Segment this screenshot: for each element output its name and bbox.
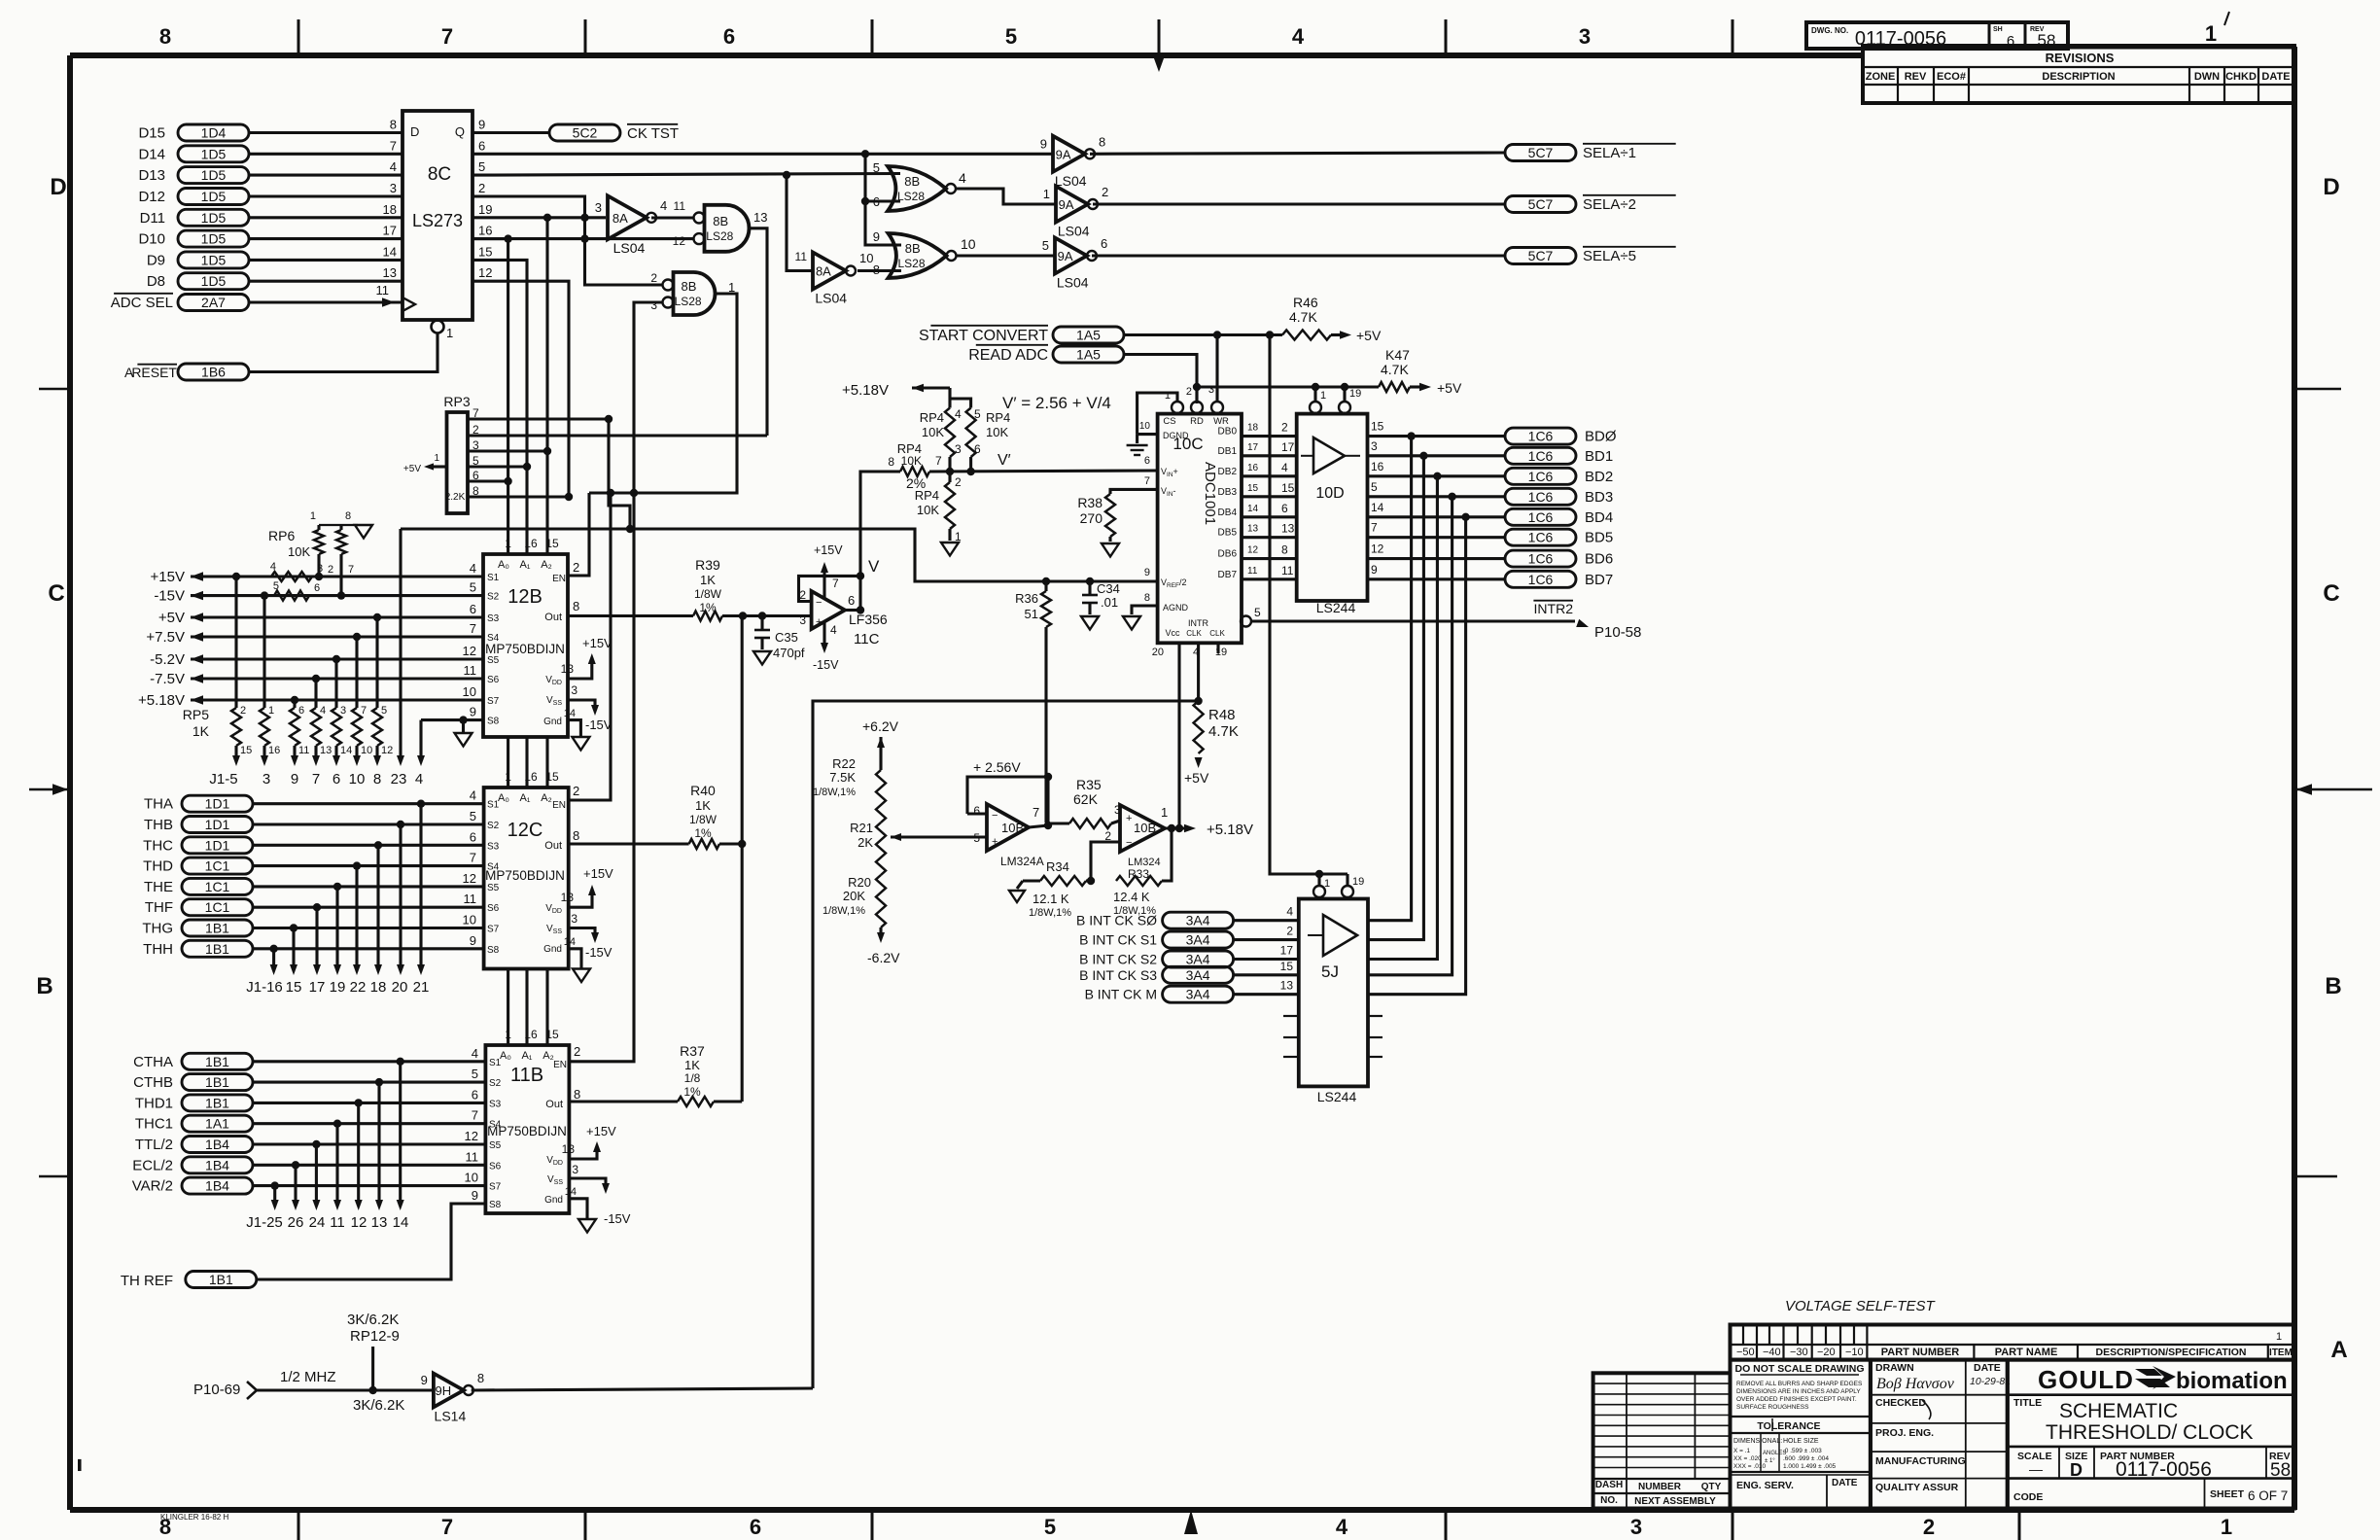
svg-text:5: 5 [472,1067,478,1081]
svg-text:+: + [992,836,997,848]
svg-text:2: 2 [573,560,579,575]
12C VDD +15V [569,891,592,907]
10D output to tag BD6 [1368,557,1506,560]
svg-text:8A: 8A [612,211,628,226]
wire 11B out to R37 [569,1100,678,1102]
svg-text:4.7K: 4.7K [1381,362,1409,377]
svg-text:LS04: LS04 [1055,173,1087,189]
J1-23 wire [399,529,402,757]
svg-text:SURFACE ROUGHNESS: SURFACE ROUGHNESS [1736,1404,1809,1411]
svg-text:1: 1 [1043,187,1050,201]
svg-text:-15V: -15V [813,658,839,672]
svg-text:9: 9 [421,1373,428,1387]
svg-text:S2: S2 [487,592,500,603]
svg-text:7: 7 [472,1108,478,1123]
wire THC1 to 11B [253,1122,485,1125]
svg-text:11: 11 [1247,566,1258,577]
svg-text:3A4: 3A4 [1186,967,1210,983]
wire NOR(13) out down [748,228,768,436]
svg-text:+7.5V: +7.5V [146,629,185,646]
svg-text:BD6: BD6 [1585,551,1613,568]
svg-text:1B1: 1B1 [205,941,229,957]
svg-text:11: 11 [330,1214,345,1231]
svg-text:1C6: 1C6 [1528,509,1554,525]
svg-text:4: 4 [320,705,326,717]
svg-text:5J: 5J [1321,962,1339,981]
svg-text:3: 3 [650,298,657,312]
svg-text:R39: R39 [695,557,720,573]
svg-text:4: 4 [955,407,962,421]
analog mux 12C MP750BDIJN [484,787,569,969]
svg-text:16: 16 [268,745,280,756]
buffer 5J LS244 [1299,899,1368,1087]
svg-text:DB6: DB6 [1218,549,1238,560]
title company block [2008,1360,2294,1509]
wire 5J output to BD1 line [1419,452,1427,460]
svg-text:RP4: RP4 [920,410,944,425]
svg-text:15: 15 [1371,420,1384,434]
svg-text:CODE: CODE [2013,1491,2043,1503]
svg-text:2: 2 [573,784,579,798]
svg-text:13: 13 [371,1214,388,1231]
resistor RP5 section pin 2 to J1-15 [232,573,240,580]
svg-text:11: 11 [376,283,390,297]
svg-text:3: 3 [799,613,806,627]
svg-text:LS273: LS273 [412,211,463,230]
svg-text:C: C [2323,580,2339,607]
svg-text:1B4: 1B4 [205,1178,229,1194]
svg-text:11B: 11B [510,1065,543,1086]
ADC INTR pin bubble [1241,616,1251,627]
svg-text:1B1: 1B1 [209,1272,233,1287]
ADC RD vertical [1195,387,1198,402]
wire 8C pin12 down [472,281,569,497]
svg-text:S1: S1 [489,1058,502,1068]
svg-text:11: 11 [674,199,686,213]
wire THG to 12C [253,927,484,929]
svg-text:8: 8 [159,24,171,49]
svg-text:S6: S6 [489,1161,502,1172]
svg-text:+5V: +5V [1184,770,1209,786]
svg-text:V′ = 2.56 + V/4: V′ = 2.56 + V/4 [1002,394,1111,412]
svg-text:1B4: 1B4 [205,1157,229,1172]
svg-text:MANUFACTURING: MANUFACTURING [1875,1455,1966,1467]
svg-text:1/2 MHZ: 1/2 MHZ [280,1369,336,1385]
svg-text:S8: S8 [487,945,500,956]
vertical from pin5 line to inverter 8A-4 [787,175,813,271]
svg-text:D9: D9 [147,252,165,268]
svg-text:26: 26 [288,1214,304,1231]
svg-text:12: 12 [673,234,686,248]
wire D15 to 8C pin 8 [249,131,402,134]
wire START CONVERT down to 5J enables [1270,335,1347,875]
svg-text:DB4: DB4 [1218,507,1238,518]
svg-text:DIMENSIONAL:: DIMENSIONAL: [1733,1438,1782,1445]
svg-text:6: 6 [472,469,479,482]
svg-text:DIMENSIONS ARE IN INCHES AND A: DIMENSIONS ARE IN INCHES AND APPLY [1736,1388,1861,1395]
ADC WR vertical [1215,335,1218,402]
5J buffer triangle [1323,915,1357,956]
wire P10-69 to LS14 [257,1388,434,1391]
svg-text:R20: R20 [848,875,871,890]
svg-text:D13: D13 [138,167,165,184]
svg-text:15: 15 [545,537,559,550]
svg-text:−: − [816,597,822,609]
svg-text:2: 2 [1186,386,1192,398]
svg-text:EN: EN [552,800,566,811]
svg-text:8: 8 [373,771,381,787]
svg-text:S5: S5 [487,655,500,666]
svg-text:1A5: 1A5 [1076,347,1101,363]
10D output to tag BD3 [1368,495,1506,498]
svg-text:5: 5 [1005,24,1017,49]
svg-text:B: B [2325,973,2341,999]
svg-text:R40: R40 [690,783,716,798]
svg-text:−: − [992,810,997,822]
svg-text:1D1: 1D1 [205,837,230,853]
drawing number box [1806,22,2068,49]
svg-text:9: 9 [1040,136,1047,151]
svg-text:8B: 8B [905,241,921,256]
svg-text:10B: 10B [1001,821,1024,835]
svg-text:A₁: A₁ [519,792,530,804]
svg-text:−40: −40 [1763,1347,1781,1358]
resistor R22 7.5K [876,770,886,822]
svg-text:1: 1 [310,510,316,522]
svg-text:3: 3 [472,438,479,452]
svg-text:Gnd: Gnd [543,717,562,727]
svg-text:1/8W: 1/8W [689,813,717,826]
svg-text:8B: 8B [713,214,728,228]
svg-text:10: 10 [463,684,476,699]
svg-text:7: 7 [1144,475,1150,487]
svg-text:1D5: 1D5 [201,273,227,289]
svg-text:GOULD: GOULD [2038,1365,2134,1394]
svg-text:1/8W,1%: 1/8W,1% [1029,907,1071,919]
svg-text:7.5K: 7.5K [829,770,856,785]
svg-text:12: 12 [1371,542,1384,556]
svg-text:MP750BDIJN: MP750BDIJN [485,642,565,656]
wire 8C pin6 to inverter 9A-1 (SELA chain) [472,153,1053,156]
svg-text:± 1°: ± 1° [1765,1458,1775,1464]
svg-text:13: 13 [562,1142,576,1156]
wire READ ADC to ADC RD [1124,355,1197,404]
svg-text:1K: 1K [192,723,210,739]
wire 8C pin15 to 12B A1 [472,260,527,554]
RP4 10K section pins 8-7 horizontal [900,467,929,476]
svg-text:.600 .999 ± .004: .600 .999 ± .004 [1783,1455,1829,1462]
svg-text:1%: 1% [694,826,712,840]
svg-text:D: D [2323,174,2339,200]
svg-text:8A: 8A [816,264,831,279]
svg-text:1A1: 1A1 [205,1116,229,1132]
svg-text:5C7: 5C7 [1528,248,1554,263]
svg-text:9: 9 [478,118,485,132]
svg-text:ENG. SERV.: ENG. SERV. [1736,1480,1794,1491]
svg-text:S2: S2 [487,821,500,831]
10B-2 feedback R33 [1162,828,1172,881]
svg-text:7: 7 [312,771,320,787]
10B-2 output to +5.18V [1165,826,1184,829]
wire D8 to 8C pin 13 [249,280,402,283]
svg-text:1B6: 1B6 [201,365,226,380]
svg-text:1B1: 1B1 [205,1095,229,1110]
svg-text:PROJ. ENG.: PROJ. ENG. [1875,1427,1934,1439]
svg-text:R21: R21 [850,821,873,835]
R40/R37 node vertical [741,616,744,1102]
svg-text:8: 8 [573,599,579,613]
svg-text:8: 8 [1281,543,1288,557]
svg-text:D: D [2070,1460,2082,1480]
wire THA to J1 connector pin [417,800,425,808]
svg-text:S1: S1 [487,800,500,811]
svg-text:4: 4 [830,623,837,637]
V node vertical to RP4 divider [860,472,900,611]
svg-text:P10-58: P10-58 [1594,624,1641,641]
12B VSS -15V [568,700,595,708]
svg-text:DWN: DWN [2194,71,2220,83]
svg-text:5: 5 [381,705,387,717]
svg-text:DO NOT SCALE DRAWING: DO NOT SCALE DRAWING [1735,1363,1865,1375]
svg-text:R48: R48 [1208,707,1236,723]
svg-text:20: 20 [1152,647,1164,658]
svg-text:BD1: BD1 [1585,448,1613,465]
svg-text:13: 13 [1281,522,1295,536]
svg-text:6: 6 [1281,502,1288,515]
svg-text:Out: Out [545,1099,563,1110]
svg-text:−30: −30 [1790,1347,1808,1358]
svg-text:1C6: 1C6 [1528,448,1554,464]
12B VDD +15V [568,659,592,679]
svg-text:+15V: +15V [586,1124,616,1138]
svg-text:INTR2: INTR2 [1534,601,1574,616]
svg-text:+5.18V: +5.18V [138,692,185,709]
svg-text:DB3: DB3 [1218,487,1238,498]
wire 12C out to R40 [569,842,689,845]
svg-text:13: 13 [383,265,397,280]
svg-text:5C7: 5C7 [1528,145,1554,160]
svg-text:+5V: +5V [158,610,185,626]
svg-text:CHECKED: CHECKED [1875,1397,1926,1409]
zone ticks top [297,19,300,55]
svg-text:DWG. NO.: DWG. NO. [1811,26,1848,35]
wire reset pin1 to A RESET tag [249,333,437,372]
svg-text:CHKD: CHKD [2225,71,2257,83]
resistor R37 1K [678,1097,714,1106]
svg-text:VOLTAGE SELF-TEST: VOLTAGE SELF-TEST [1785,1298,1936,1314]
svg-text:10K: 10K [986,425,1008,439]
wire 5J output to BD0 line [1407,432,1415,439]
svg-text:10: 10 [463,913,476,927]
svg-text:3A4: 3A4 [1186,932,1210,948]
svg-text:9A: 9A [1059,197,1074,212]
svg-text:B INT CK S2: B INT CK S2 [1079,952,1157,967]
svg-text:7: 7 [470,621,476,636]
svg-text:10K: 10K [901,454,922,468]
svg-text:+15V: +15V [582,636,612,650]
svg-text:LF356: LF356 [849,612,888,627]
svg-text:9H: 9H [435,1383,451,1398]
resistor R35 62K [1048,822,1069,824]
resistor RP5 section pin 5 to J1-12 [373,613,381,621]
svg-text:12B: 12B [507,586,542,608]
svg-text:10: 10 [859,251,873,265]
wire TH REF to 11B S8 [257,1204,485,1279]
svg-text:1: 1 [505,537,511,550]
svg-text:RP5: RP5 [183,707,209,722]
wire NOR1 out to inverter 9A-2 [956,189,1056,204]
output tag 5C7 SELA/1 [1505,145,1576,161]
svg-text:+15V: +15V [151,569,185,585]
svg-text:WR: WR [1213,416,1229,427]
svg-text:TITLE: TITLE [2013,1397,2042,1409]
J1-4 wire from 12B S8 [421,718,483,721]
svg-text:THA: THA [144,796,173,813]
svg-text:14: 14 [1247,504,1259,514]
op-amp 10B LM324 [1120,805,1165,852]
svg-text:1: 1 [1320,390,1326,402]
svg-text:470pf: 470pf [773,646,805,660]
svg-text:R35: R35 [1076,777,1102,792]
svg-text:ECL/2: ECL/2 [132,1157,173,1173]
svg-text:1D5: 1D5 [201,167,227,183]
10D output to tag BD1 [1368,454,1506,457]
svg-text:RP4: RP4 [915,488,939,503]
svg-text:7: 7 [348,564,354,576]
svg-text:3: 3 [390,181,397,195]
svg-text:Gnd: Gnd [544,1195,563,1206]
svg-text:A₁: A₁ [521,1050,532,1062]
svg-text:CLK: CLK [1186,629,1202,638]
svg-text:1: 1 [2221,1515,2232,1539]
svg-text:10: 10 [465,1171,478,1185]
svg-text:12: 12 [351,1214,367,1231]
RP4 10K section pins 5-6 [950,399,971,408]
svg-text:1: 1 [2276,1331,2282,1343]
svg-text:D12: D12 [138,189,165,205]
svg-text:10B: 10B [1134,821,1156,835]
svg-text:1: 1 [446,326,453,340]
svg-text:15: 15 [478,244,492,259]
R36 51 on VREF line [1044,581,1047,591]
A bus 12B to 12C [507,737,509,787]
svg-text:16: 16 [478,224,492,238]
12B GND [568,720,580,737]
svg-text:−10: −10 [1845,1347,1864,1358]
register 8C LS273 [402,111,472,320]
svg-text:LS04: LS04 [613,240,646,256]
svg-text:A₀: A₀ [498,792,509,804]
svg-text:3A4: 3A4 [1186,952,1210,967]
10D output to tag BD4 [1368,515,1506,518]
svg-text:6: 6 [298,705,304,717]
svg-text:S5: S5 [489,1140,502,1151]
wire CTHA to 11B [253,1060,485,1063]
resistor R20 20K [876,875,886,927]
wire START CONVERT to ADC WR [1124,333,1282,336]
wire EN chain to 11B EN pin2 [569,493,634,1062]
svg-text:LS04: LS04 [1057,275,1089,291]
svg-text:REMOVE ALL BURRS AND SHARP EDG: REMOVE ALL BURRS AND SHARP EDGES [1736,1381,1863,1387]
svg-text:S4: S4 [487,633,500,644]
NOR gate 8B (9,8 - 10) LS28 [889,233,947,278]
svg-text:14: 14 [564,708,576,719]
svg-text:10D: 10D [1315,485,1344,502]
svg-text:SELA÷2: SELA÷2 [1583,196,1636,213]
svg-text:10K: 10K [922,425,944,439]
svg-text:SELA÷5: SELA÷5 [1583,248,1636,264]
svg-text:Bοβ Hανσον: Bοβ Hανσον [1876,1376,1955,1392]
svg-text:DB7: DB7 [1218,570,1238,580]
resistor RP5 section pin 7 to J1-10 [353,633,361,641]
svg-text:17: 17 [383,224,397,238]
svg-text:DGND: DGND [1163,431,1189,440]
svg-text:5: 5 [1042,238,1049,253]
svg-text:4: 4 [1292,24,1305,49]
svg-text:ZONE: ZONE [1866,71,1896,83]
wire THE to 12C [253,885,484,888]
svg-text:4: 4 [270,561,276,573]
wire THD to 12C [253,864,484,867]
R21 wiper arrow [891,833,901,841]
svg-text:LS28: LS28 [675,295,702,308]
svg-text:10K: 10K [917,503,939,517]
svg-text:5: 5 [478,159,485,174]
svg-text:-7.5V: -7.5V [150,671,185,687]
svg-text:S3: S3 [487,613,500,624]
svg-text:DB2: DB2 [1218,467,1238,477]
svg-text:S4: S4 [489,1120,502,1131]
svg-text:2: 2 [1102,185,1108,199]
svg-text:S4: S4 [487,862,500,873]
svg-text:13: 13 [753,210,767,225]
parts list strip [1731,1325,2295,1360]
svg-text:10: 10 [349,771,366,787]
svg-text:1B1: 1B1 [205,921,229,936]
svg-text:NUMBER: NUMBER [1638,1482,1682,1492]
svg-text:+5V: +5V [1437,380,1462,396]
svg-text:AGND: AGND [1163,603,1189,612]
svg-text:8: 8 [477,1371,484,1385]
10B-1 output to R35 [1029,825,1048,827]
svg-text:13: 13 [561,891,575,904]
svg-text:6: 6 [750,1515,761,1539]
svg-text:6: 6 [472,1087,478,1102]
svg-text:LS04: LS04 [1058,224,1090,239]
svg-text:3: 3 [572,1163,578,1176]
analog mux 11B MP750BDIJN [485,1045,569,1213]
svg-text:8C: 8C [428,164,451,185]
V-prime node wires [929,471,1158,472]
svg-text:13: 13 [561,662,575,676]
wire 8C pin16 to 12B A0 [472,239,508,554]
10D enable circles 1,19 [1310,402,1321,413]
wire ADC SEL to 8C pin 11 with arrowhead [249,300,402,303]
svg-text:RP12-9: RP12-9 [350,1328,400,1345]
svg-text:3: 3 [1371,439,1378,453]
RP3 pin 6 wire [468,479,508,482]
10D output to tag BD5 [1368,536,1506,539]
svg-text:A₁: A₁ [519,559,530,571]
svg-text:7: 7 [390,138,397,153]
wire R33 to inverting input [1087,877,1095,885]
svg-text:3: 3 [317,563,323,575]
svg-text:6: 6 [973,804,980,818]
svg-text:THC1: THC1 [135,1116,173,1133]
svg-text:4: 4 [470,561,476,576]
svg-text:12: 12 [1247,545,1259,556]
svg-text:9: 9 [291,771,298,787]
